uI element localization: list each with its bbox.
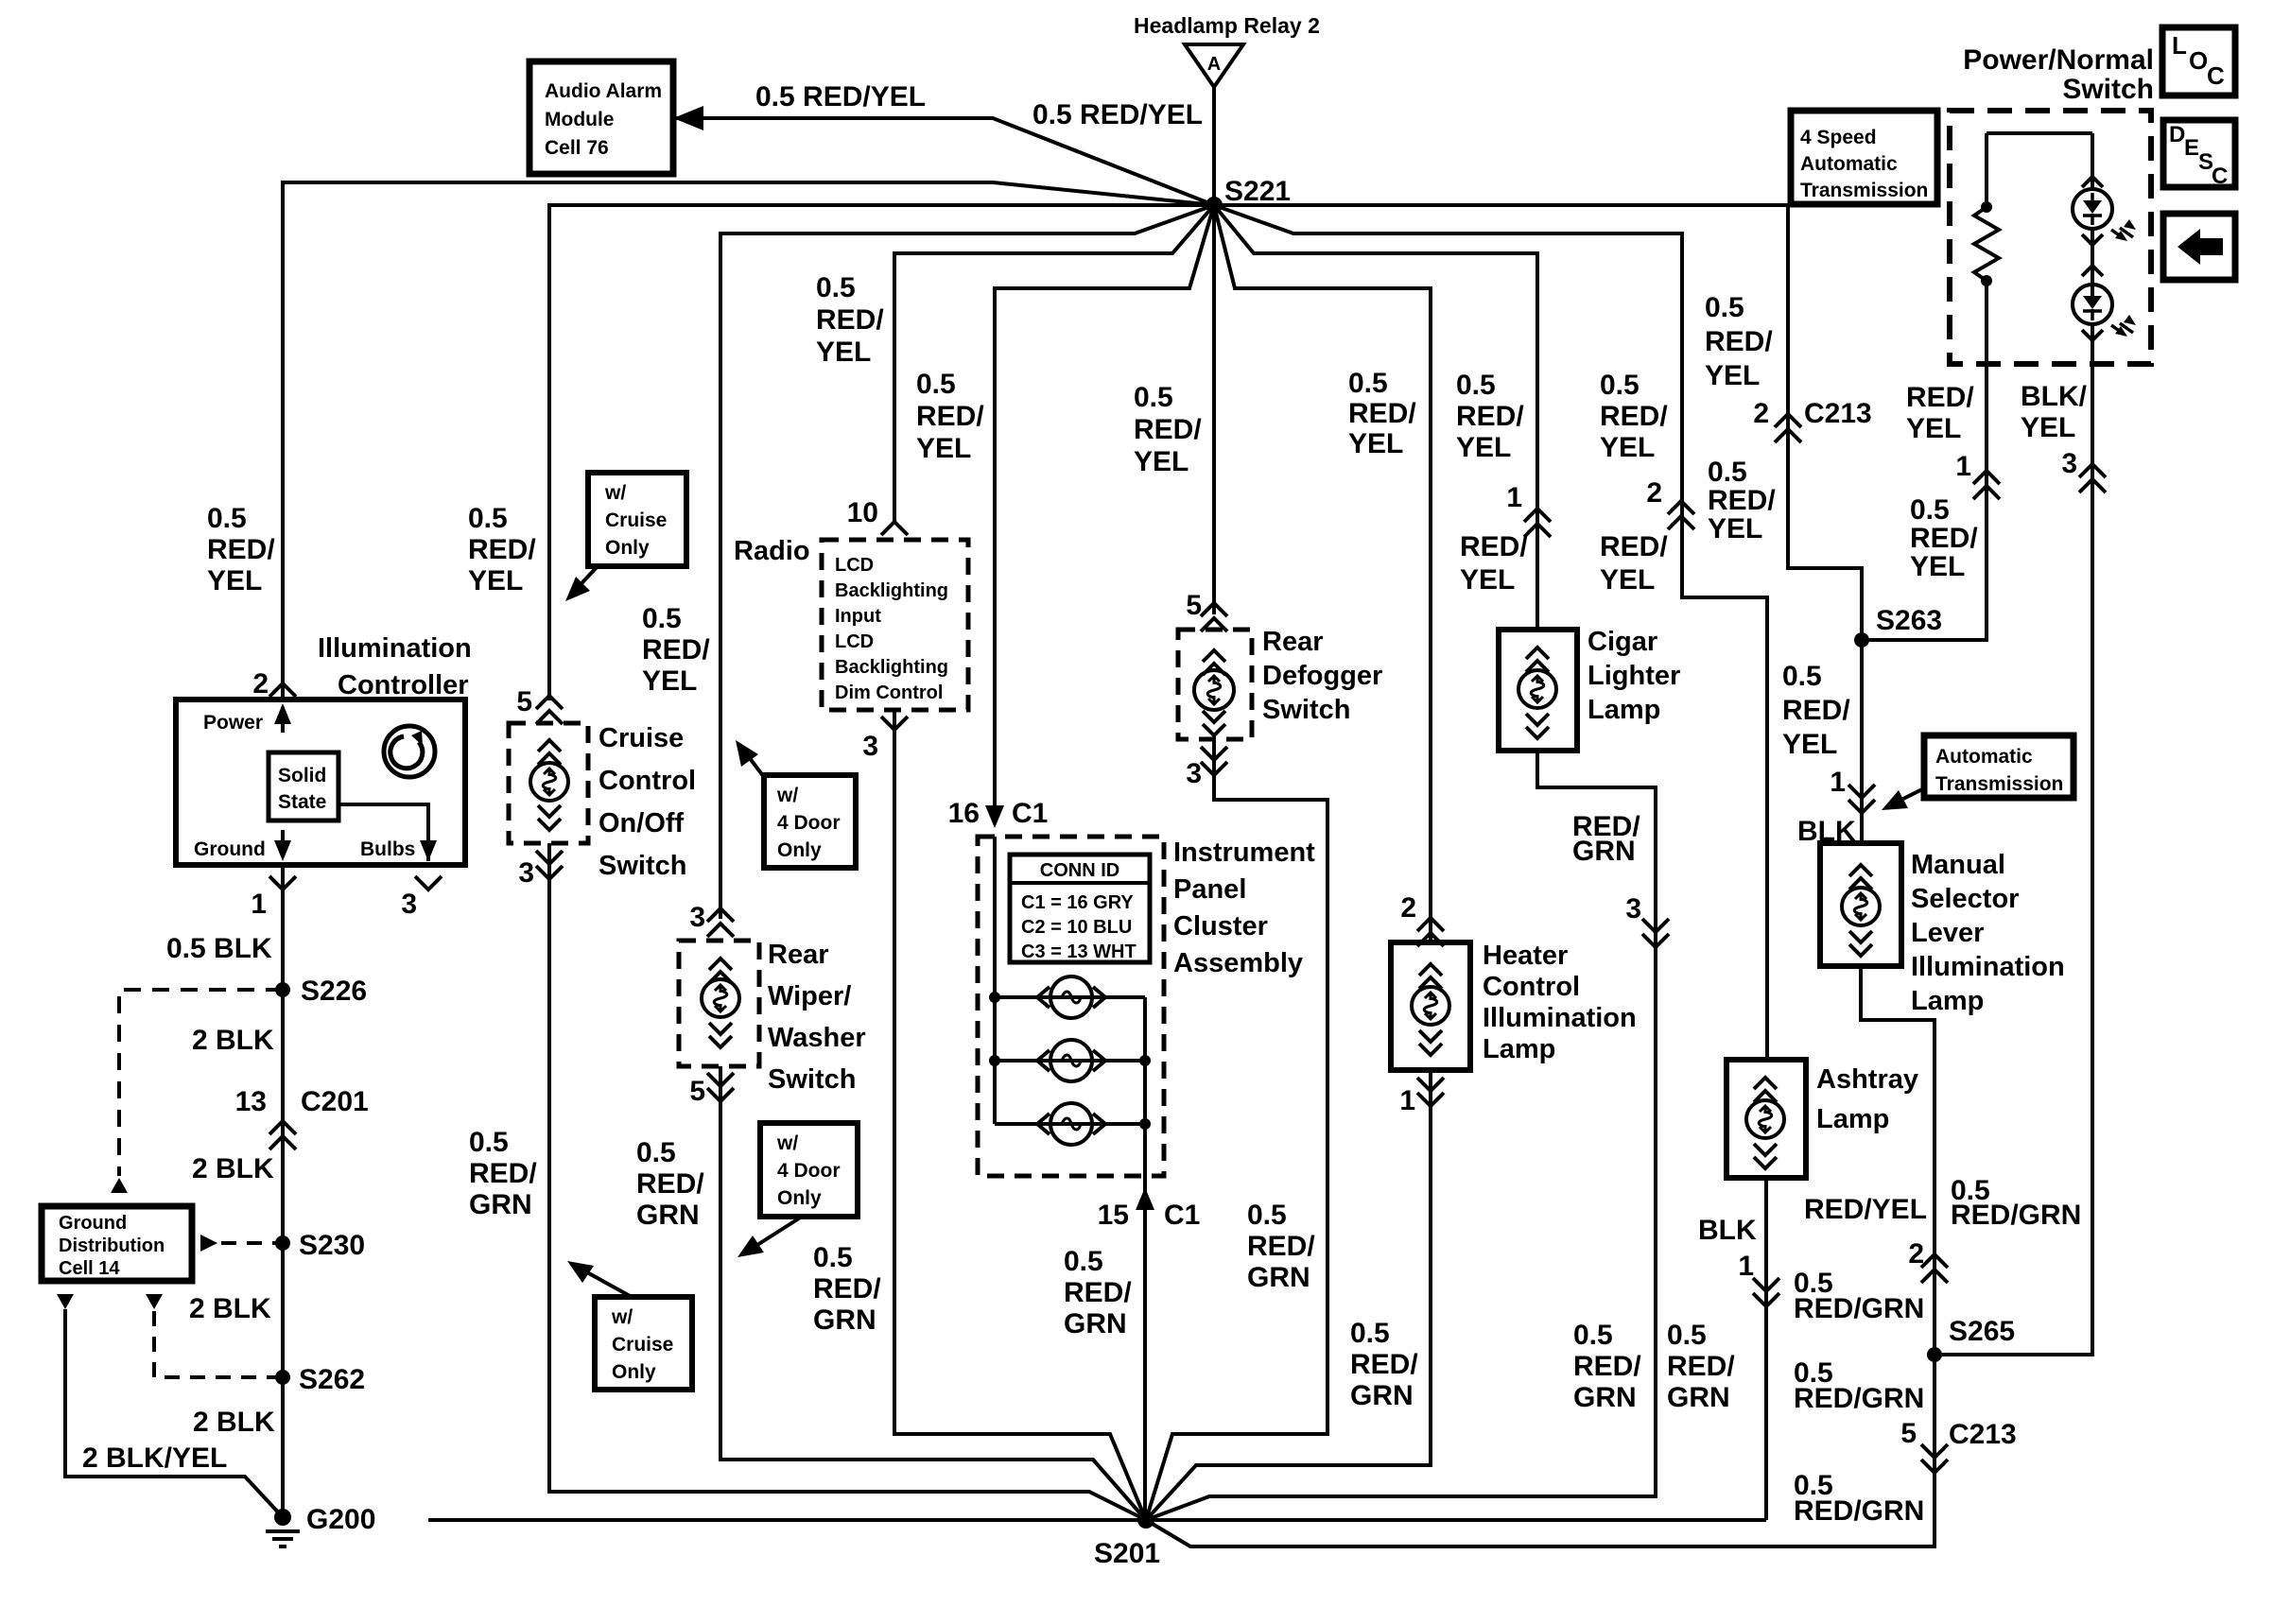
svg-text:BLK: BLK xyxy=(1698,1215,1757,1246)
svg-text:O: O xyxy=(2189,46,2208,75)
svg-text:Control: Control xyxy=(599,766,696,796)
svg-text:E: E xyxy=(2184,135,2199,161)
svg-text:0.5: 0.5 xyxy=(1573,1320,1613,1351)
svg-text:C201: C201 xyxy=(301,1086,369,1117)
svg-text:Lamp: Lamp xyxy=(1816,1104,1889,1134)
svg-text:0.5: 0.5 xyxy=(469,1127,509,1158)
svg-text:S221: S221 xyxy=(1224,176,1291,207)
svg-text:G200: G200 xyxy=(306,1504,375,1535)
wire 0.5 RED/GRN Rear Wiper/Washer Switch pin 5 to S201 xyxy=(720,1066,1146,1520)
svg-text:Only: Only xyxy=(605,537,650,559)
wire 0.5 RED/YEL S221 to C213 pin 2 and S263 xyxy=(1788,205,1862,640)
svg-text:Cluster: Cluster xyxy=(1173,911,1268,942)
svg-text:YEL: YEL xyxy=(468,565,523,596)
wire between LEDs xyxy=(2091,229,2094,302)
wire 2 BLK/YEL to G200 xyxy=(65,1309,283,1517)
svg-text:2 BLK/YEL: 2 BLK/YEL xyxy=(82,1443,227,1474)
svg-text:Power/Normal: Power/Normal xyxy=(1963,44,2154,76)
wire IPC lamp row 2 xyxy=(995,1059,1145,1063)
wire IPC lamp row 3 xyxy=(995,1122,1145,1126)
lamp Manual Selector Lever illumination xyxy=(1842,888,1880,925)
lamp Rear Wiper/Washer illumination xyxy=(702,979,739,1017)
svg-text:3: 3 xyxy=(518,857,534,889)
svg-text:5: 5 xyxy=(689,1076,705,1107)
arrow callout cruise lower xyxy=(577,1267,632,1297)
svg-text:LCD: LCD xyxy=(835,555,874,576)
callout Automatic Transmission xyxy=(1924,735,2073,798)
LED lamp 2 power/normal xyxy=(2073,285,2112,324)
connector pin 1 Ashtray wire xyxy=(1753,1278,1779,1306)
wire 0.5 RED/YEL S221 to Illumination Controller pin 2 xyxy=(283,182,1214,700)
splice S265 xyxy=(1927,1347,1942,1362)
module Audio Alarm Module Cell 76 xyxy=(529,61,673,174)
junction IPC bus xyxy=(1139,1118,1151,1130)
svg-text:S230: S230 xyxy=(299,1230,365,1261)
svg-text:16: 16 xyxy=(948,798,980,829)
svg-text:Dim Control: Dim Control xyxy=(835,682,943,703)
module Illumination Controller xyxy=(176,700,465,865)
svg-text:0.5: 0.5 xyxy=(1600,370,1640,401)
svg-text:Heater: Heater xyxy=(1483,941,1568,971)
wire main 0.5 RED/YEL bus through S221 xyxy=(549,205,1788,700)
wire 0.5 RED/GRN Rear Defogger Switch pin 3 to S201 xyxy=(1146,739,1327,1520)
svg-text:2 BLK: 2 BLK xyxy=(192,1025,274,1056)
svg-text:YEL: YEL xyxy=(1906,413,1961,444)
svg-text:RED/: RED/ xyxy=(813,1273,881,1304)
svg-text:3: 3 xyxy=(401,889,417,920)
svg-text:C: C xyxy=(2207,61,2225,90)
svg-text:Only: Only xyxy=(777,1187,822,1209)
svg-text:C2 = 10 BLU: C2 = 10 BLU xyxy=(1021,917,1132,938)
dashed wire Ground Distribution to S262 xyxy=(154,1311,283,1377)
svg-text:0.5 RED/YEL: 0.5 RED/YEL xyxy=(755,81,926,112)
arrow pin 15 C1 out of cluster xyxy=(1143,1176,1147,1212)
svg-text:RED/: RED/ xyxy=(642,634,710,665)
svg-text:C3 = 13 WHT: C3 = 13 WHT xyxy=(1021,942,1136,962)
arrow callout automatic transmission xyxy=(1894,788,1924,803)
svg-text:0.5: 0.5 xyxy=(1350,1318,1390,1349)
svg-text:RED/: RED/ xyxy=(1350,1349,1418,1380)
svg-text:Cruise: Cruise xyxy=(599,723,684,753)
svg-text:Automatic: Automatic xyxy=(1800,153,1898,175)
lamp box Manual Selector Lever Illumination Lamp xyxy=(1820,843,1901,966)
splice S226 xyxy=(275,982,290,997)
svg-text:YEL: YEL xyxy=(1600,432,1655,463)
lamp Cruise Control illumination xyxy=(530,763,568,801)
svg-text:CONN ID: CONN ID xyxy=(1040,860,1119,881)
svg-text:Lamp: Lamp xyxy=(1588,695,1660,725)
wire 0.5 RED/YEL BLK S263 to Manual Selector Lever Illumination Lamp pin 1 xyxy=(1860,640,1864,843)
svg-text:Audio Alarm: Audio Alarm xyxy=(545,80,662,102)
svg-text:Manual: Manual xyxy=(1911,850,2005,880)
connector pin 3 Rear Wiper/Washer xyxy=(707,908,734,937)
wire 0.5 RED/YEL S221 to Rear Defogger Switch pin 5 xyxy=(1212,205,1216,614)
icon left arrow xyxy=(2178,229,2223,265)
svg-text:S263: S263 xyxy=(1876,605,1942,636)
svg-text:LCD: LCD xyxy=(835,631,874,652)
connector A Headlamp Relay 2 xyxy=(1185,44,1243,87)
connector C213 pin 5 xyxy=(1921,1444,1948,1473)
splice S201 xyxy=(1137,1512,1154,1529)
lamp Ashtray xyxy=(1746,1100,1784,1138)
svg-text:0.5: 0.5 xyxy=(1247,1200,1287,1231)
ground G200 xyxy=(274,1509,291,1526)
svg-text:Instrument: Instrument xyxy=(1173,838,1315,868)
svg-text:RED/: RED/ xyxy=(1910,523,1978,554)
svg-text:GRN: GRN xyxy=(1064,1308,1127,1339)
lamp box Heater Control Illumination Lamp xyxy=(1391,942,1470,1070)
svg-text:Lamp: Lamp xyxy=(1911,986,1984,1016)
svg-text:YEL: YEL xyxy=(207,565,262,596)
wire Bulbs output xyxy=(338,804,428,861)
svg-text:0.5: 0.5 xyxy=(1667,1320,1707,1351)
wire BLK/YEL Power/Normal Switch pin 3 to S265 xyxy=(1935,364,2092,1355)
svg-text:Switch: Switch xyxy=(599,851,686,881)
svg-text:1: 1 xyxy=(251,889,267,920)
svg-text:0.5: 0.5 xyxy=(1910,494,1950,526)
wire main 0.5 RED/GRN bus through S201 xyxy=(428,1518,1766,1522)
connector pin 3 Cigar wire xyxy=(1642,919,1669,947)
svg-text:C213: C213 xyxy=(1804,398,1872,429)
connector pin 3 Power/Normal wire xyxy=(2079,464,2106,492)
svg-text:YEL: YEL xyxy=(1910,551,1965,582)
svg-text:Switch: Switch xyxy=(2062,74,2154,105)
svg-text:2: 2 xyxy=(252,668,269,700)
box Solid State xyxy=(269,752,338,821)
wire IPC right bus xyxy=(1143,997,1147,1176)
svg-text:0.5 RED/YEL: 0.5 RED/YEL xyxy=(1032,99,1203,130)
svg-text:S265: S265 xyxy=(1949,1316,2015,1347)
svg-text:RED/: RED/ xyxy=(1705,326,1773,357)
svg-text:YEL: YEL xyxy=(1600,564,1655,596)
svg-text:Rear: Rear xyxy=(1262,627,1324,657)
svg-text:0.5 BLK: 0.5 BLK xyxy=(166,933,272,964)
svg-text:RED/: RED/ xyxy=(1460,531,1528,562)
arrow pin 16 C1 into cluster xyxy=(993,799,997,821)
svg-text:Illumination: Illumination xyxy=(1483,1003,1637,1033)
svg-text:On/Off: On/Off xyxy=(599,808,685,838)
svg-text:2: 2 xyxy=(1753,398,1769,429)
svg-text:0.5: 0.5 xyxy=(813,1242,853,1273)
connector pin 3 Radio xyxy=(881,717,908,730)
svg-text:GRN: GRN xyxy=(1572,836,1636,867)
connector pin 3 Illumination Controller xyxy=(415,876,442,890)
svg-text:YEL: YEL xyxy=(1782,729,1837,760)
svg-text:5: 5 xyxy=(1900,1418,1917,1449)
svg-text:YEL: YEL xyxy=(916,433,971,464)
svg-text:Illumination: Illumination xyxy=(318,633,472,664)
svg-text:Lamp: Lamp xyxy=(1483,1034,1555,1064)
svg-text:15: 15 xyxy=(1098,1200,1129,1231)
connector C201 pin 13 xyxy=(269,1121,296,1149)
svg-text:Only: Only xyxy=(777,839,822,861)
wire 0.5 RED/YEL S221 to Audio Alarm Module xyxy=(673,118,1214,205)
svg-text:5: 5 xyxy=(1186,590,1202,621)
svg-text:1: 1 xyxy=(1830,767,1846,798)
svg-text:D: D xyxy=(2169,122,2185,147)
junction IPC bus xyxy=(989,992,1000,1003)
wire 0.5 RED/YEL S221 to Cigar Lighter Lamp pin 1 xyxy=(1214,205,1537,630)
svg-text:YEL: YEL xyxy=(642,665,697,697)
wire RED/YEL Manual Selector Lamp pin 2 to S265 xyxy=(1861,966,1935,1355)
svg-text:2 BLK: 2 BLK xyxy=(193,1407,275,1438)
svg-text:Module: Module xyxy=(545,109,615,130)
junction IPC bus xyxy=(989,1055,1000,1066)
svg-text:RED/: RED/ xyxy=(1247,1231,1315,1262)
connector pin 1 Illumination Controller xyxy=(269,876,296,890)
dashed arrow Ground Distribution second leg xyxy=(57,1294,74,1309)
svg-text:S262: S262 xyxy=(299,1364,365,1395)
svg-text:Only: Only xyxy=(612,1361,656,1383)
svg-text:0.5: 0.5 xyxy=(1708,457,1747,488)
svg-text:0.5: 0.5 xyxy=(1456,370,1496,401)
table CONN ID xyxy=(1010,855,1150,962)
callout w/ Cruise Only upper xyxy=(588,473,686,566)
svg-text:A: A xyxy=(1207,54,1221,75)
switch Rear Wiper/Washer Switch xyxy=(679,941,759,1066)
wire 0.5 RED/GRN Cruise Control Switch pin 3 to S201 xyxy=(549,843,1146,1520)
lamp box Cigar Lighter Lamp xyxy=(1499,630,1577,751)
wire 0.5 RED/YEL S221 to Heater Control Illumination Lamp pin 2 xyxy=(1214,205,1431,942)
wire 0.5 RED/GRN Heater Control Lamp pin 1 to S201 xyxy=(1146,1070,1431,1520)
svg-text:S201: S201 xyxy=(1094,1538,1160,1569)
svg-text:Assembly: Assembly xyxy=(1173,948,1303,978)
svg-text:w/: w/ xyxy=(604,482,626,504)
svg-text:0.5: 0.5 xyxy=(636,1137,676,1168)
svg-text:RED/GRN: RED/GRN xyxy=(1794,1293,1924,1324)
svg-text:0.5: 0.5 xyxy=(468,503,508,534)
svg-text:Ground: Ground xyxy=(59,1213,127,1234)
module Radio LCD backlighting xyxy=(822,540,968,710)
svg-text:2: 2 xyxy=(1400,892,1416,924)
callout 4 Speed Automatic Transmission xyxy=(1791,111,1937,204)
svg-text:Lighter: Lighter xyxy=(1588,661,1680,691)
svg-text:RED/: RED/ xyxy=(1134,414,1202,445)
wire 0.5 RED/YEL S221 to Rear Wiper/Washer Switch pin 3 xyxy=(720,205,1214,919)
svg-text:Headlamp Relay 2: Headlamp Relay 2 xyxy=(1134,13,1320,38)
connector pin 3 Cruise Control xyxy=(536,851,563,879)
svg-text:Automatic: Automatic xyxy=(1935,746,2033,768)
svg-text:Cell 76: Cell 76 xyxy=(545,137,609,159)
wire 0.5 RED/GRN Radio pin 3 to S201 xyxy=(894,710,1146,1520)
wire 0.5 BLK / 2 BLK Illumination Controller ground to G200 xyxy=(281,865,285,1517)
legend box LOC xyxy=(2162,27,2235,95)
wire IPC lamp row 1 xyxy=(995,995,1145,999)
connector pin 5 Cruise Control xyxy=(536,696,563,724)
svg-text:Ashtray: Ashtray xyxy=(1816,1064,1918,1095)
svg-text:Radio: Radio xyxy=(734,536,810,566)
svg-text:Switch: Switch xyxy=(1262,695,1350,725)
svg-text:1: 1 xyxy=(1738,1251,1754,1282)
svg-text:BLK/: BLK/ xyxy=(2021,381,2088,412)
svg-text:Controller: Controller xyxy=(338,670,469,700)
svg-text:RED/: RED/ xyxy=(1667,1351,1735,1382)
arrow callout 4door lower xyxy=(747,1217,802,1252)
svg-text:0.5: 0.5 xyxy=(1064,1246,1103,1277)
symbol controller dial xyxy=(384,726,435,777)
svg-text:0.5: 0.5 xyxy=(1348,368,1388,399)
junction resistor bottom xyxy=(1981,275,1992,286)
svg-text:3: 3 xyxy=(1186,758,1202,789)
svg-text:Cruise: Cruise xyxy=(612,1334,673,1356)
svg-text:2 BLK: 2 BLK xyxy=(192,1153,274,1184)
svg-text:w/: w/ xyxy=(776,785,798,806)
svg-text:Switch: Switch xyxy=(768,1064,856,1095)
connector pin 1 Cigar Lighter Lamp xyxy=(1524,509,1551,537)
svg-text:State: State xyxy=(278,791,326,813)
wire 0.5 RED/YEL S221 to Ashtray Lamp pin 2 xyxy=(1214,205,1767,1060)
svg-text:RED/: RED/ xyxy=(1600,531,1668,562)
wire S221 to Headlamp Relay 2 xyxy=(1212,87,1216,205)
LED 2 light arrows xyxy=(2111,323,2133,335)
svg-text:C: C xyxy=(2212,164,2228,189)
svg-text:3: 3 xyxy=(862,731,878,762)
svg-text:GRN: GRN xyxy=(813,1304,876,1336)
callout w/ Cruise Only lower xyxy=(595,1297,692,1390)
wire 0.5 RED/GRN S265 through C213 pin 5 to S201 xyxy=(1146,1355,1935,1546)
arrow Ground pin 1 xyxy=(281,830,285,856)
svg-text:w/: w/ xyxy=(776,1132,798,1154)
svg-text:Wiper/: Wiper/ xyxy=(768,981,851,1011)
svg-text:RED/: RED/ xyxy=(469,1158,537,1189)
resistor power/normal switch xyxy=(1974,207,1999,281)
svg-text:RED/GRN: RED/GRN xyxy=(1794,1383,1924,1414)
svg-text:w/: w/ xyxy=(611,1306,633,1328)
svg-text:0.5: 0.5 xyxy=(916,369,956,400)
svg-text:RED/: RED/ xyxy=(1064,1277,1132,1308)
svg-text:0.5: 0.5 xyxy=(207,503,247,534)
svg-text:RED/: RED/ xyxy=(1708,485,1776,516)
splice S263 xyxy=(1854,632,1869,648)
wire 0.5 RED/YEL S221 to Radio pin 10 xyxy=(894,205,1214,522)
svg-text:Cigar: Cigar xyxy=(1588,627,1657,657)
svg-text:GRN: GRN xyxy=(636,1200,700,1231)
lamp Heater Control illumination xyxy=(1412,987,1449,1025)
wire resistor top lead xyxy=(1985,133,1988,207)
wire 0.5 RED/GRN Instrument Panel Cluster pin 15 C1 to S201 xyxy=(1143,1176,1147,1520)
wire RED/GRN Cigar Lighter Lamp pin 3 to S201 xyxy=(1146,751,1656,1520)
svg-text:Washer: Washer xyxy=(768,1023,866,1053)
svg-text:0.5: 0.5 xyxy=(1705,292,1744,323)
svg-text:1: 1 xyxy=(1955,451,1971,482)
svg-text:L: L xyxy=(2172,31,2187,60)
svg-text:3: 3 xyxy=(1625,893,1641,924)
connector pin 10 Radio xyxy=(881,522,908,535)
callout w/ 4 Door Only lower xyxy=(760,1123,858,1217)
lamp Rear Defogger illumination xyxy=(1194,670,1234,710)
svg-text:Control: Control xyxy=(1483,972,1580,1002)
svg-text:Illumination: Illumination xyxy=(1911,952,2065,982)
svg-text:Backlighting: Backlighting xyxy=(835,580,948,601)
switch Cruise Control On/Off Switch xyxy=(509,723,588,843)
svg-text:Defogger: Defogger xyxy=(1262,661,1382,691)
svg-text:0.5: 0.5 xyxy=(1134,382,1173,413)
connector pin 2 Heater Control Lamp xyxy=(1417,918,1444,946)
svg-text:RED/: RED/ xyxy=(1573,1351,1641,1382)
connector pin 1 Power/Normal wire xyxy=(1973,471,2000,499)
wire resistor bottom lead xyxy=(1985,281,1988,364)
svg-text:3: 3 xyxy=(689,902,705,933)
svg-text:Transmission: Transmission xyxy=(1935,773,2063,795)
svg-text:RED/YEL: RED/YEL xyxy=(1804,1194,1927,1225)
arrow Power pin 2 xyxy=(281,707,285,733)
wire power/normal internal top xyxy=(1987,131,2092,135)
svg-text:RED/: RED/ xyxy=(1906,382,1974,413)
svg-text:1: 1 xyxy=(1506,482,1522,513)
switch Power/Normal Switch xyxy=(1950,111,2151,364)
svg-text:YEL: YEL xyxy=(1134,446,1189,477)
svg-text:Solid: Solid xyxy=(278,765,326,786)
connector C213 pin 2 xyxy=(1775,414,1801,442)
svg-text:GRN: GRN xyxy=(1350,1380,1414,1411)
lamp IPC backlight 1 xyxy=(1050,976,1092,1018)
svg-text:13: 13 xyxy=(235,1086,267,1117)
dashed wire Ground Distribution to S230 xyxy=(221,1241,283,1245)
svg-text:GRN: GRN xyxy=(1667,1382,1730,1413)
wire 0.5 RED/YEL S221 to Instrument Panel Cluster pin 16 C1 xyxy=(995,205,1214,811)
svg-text:C1: C1 xyxy=(1164,1200,1200,1231)
lamp Cigar Lighter xyxy=(1518,670,1556,708)
svg-text:0.5: 0.5 xyxy=(642,603,682,634)
svg-text:Ground: Ground xyxy=(194,838,266,860)
svg-text:Cell 14: Cell 14 xyxy=(59,1258,120,1279)
svg-text:RED/: RED/ xyxy=(1348,398,1416,429)
junction resistor top xyxy=(1981,201,1992,213)
svg-text:0.5: 0.5 xyxy=(1782,661,1822,692)
junction IPC bus xyxy=(1139,1055,1151,1066)
svg-text:YEL: YEL xyxy=(2021,412,2075,443)
svg-text:Lever: Lever xyxy=(1911,918,1984,948)
svg-text:2 BLK: 2 BLK xyxy=(189,1293,271,1324)
lamp IPC backlight 3 xyxy=(1050,1103,1092,1145)
wire BLK Ashtray Lamp pin 1 to S201 xyxy=(1764,1178,1768,1520)
svg-text:Rear: Rear xyxy=(768,940,829,970)
LED 1 light arrows xyxy=(2111,228,2133,239)
wire RED/YEL S263 to Power/Normal Switch pin 1 xyxy=(1862,364,1987,640)
svg-text:RED/: RED/ xyxy=(1782,695,1850,726)
svg-text:YEL: YEL xyxy=(1456,432,1511,463)
svg-text:RED/: RED/ xyxy=(916,401,984,432)
svg-text:Transmission: Transmission xyxy=(1800,180,1928,201)
svg-text:C1: C1 xyxy=(1012,798,1048,829)
svg-text:Cruise: Cruise xyxy=(605,510,667,531)
connector pin 1 Manual Selector wire xyxy=(1848,785,1875,813)
connector pin 3 Rear Defogger xyxy=(1201,747,1227,775)
svg-text:GRN: GRN xyxy=(1573,1382,1637,1413)
splice S262 xyxy=(275,1370,290,1385)
lamp box Ashtray Lamp xyxy=(1726,1060,1806,1178)
svg-text:RED/: RED/ xyxy=(1456,401,1524,432)
connector pin 5 Rear Wiper/Washer xyxy=(707,1073,734,1101)
legend box back arrow xyxy=(2163,214,2235,280)
svg-text:C1 = 16 GRY: C1 = 16 GRY xyxy=(1021,892,1134,913)
svg-text:Power: Power xyxy=(203,712,263,734)
svg-text:RED/: RED/ xyxy=(1600,401,1668,432)
svg-text:Input: Input xyxy=(835,606,881,627)
wire IPC left bus xyxy=(993,837,997,1124)
connector pin 2 Illumination Controller xyxy=(269,683,296,697)
module Instrument Panel Cluster Assembly xyxy=(978,837,1164,1176)
dashed wire S226 to Ground Distribution Cell 14 xyxy=(119,990,283,1176)
svg-text:4 Speed: 4 Speed xyxy=(1800,127,1877,148)
connector pin 2 S265 wire xyxy=(1921,1254,1948,1283)
svg-text:YEL: YEL xyxy=(1460,564,1515,596)
svg-text:YEL: YEL xyxy=(1705,360,1760,391)
svg-text:Backlighting: Backlighting xyxy=(835,657,948,678)
svg-text:Distribution: Distribution xyxy=(59,1235,165,1256)
svg-text:4 Door: 4 Door xyxy=(777,812,841,834)
wire LED2 to box edge xyxy=(2091,324,2094,364)
